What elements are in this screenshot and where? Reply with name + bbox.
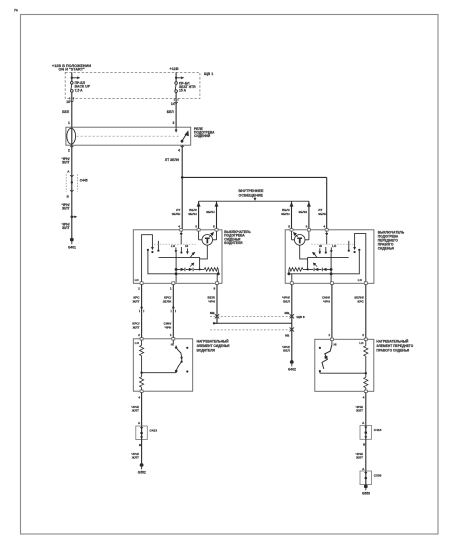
connector X mark right upper bbox=[290, 314, 294, 318]
pin A label connector C445 bbox=[67, 169, 70, 173]
connector C413 right label bbox=[374, 428, 382, 432]
wire riser bus to right switch pin3 bbox=[307, 201, 311, 230]
node power label +12V ON/START bbox=[52, 64, 91, 72]
svg-text:ВОДИТЕЛЯ: ВОДИТЕЛЯ bbox=[224, 241, 243, 245]
svg-text:БЕЛ: БЕЛ bbox=[62, 110, 70, 114]
inline connector mark pin2 wire bbox=[139, 305, 143, 312]
svg-text:ЖЛТ: ЖЛТ bbox=[355, 456, 363, 460]
connector squares top edge right element bbox=[330, 338, 367, 340]
driver seat heating element box bbox=[133, 339, 192, 391]
wire riser bus to left switch pin3 bbox=[197, 201, 201, 230]
interior light label bbox=[239, 189, 264, 197]
svg-text:C445: C445 bbox=[80, 178, 88, 182]
right switch lower feed wire bbox=[289, 251, 359, 274]
connector square bottom edge right element bbox=[364, 390, 367, 392]
indicator lamp driver switch bbox=[199, 231, 217, 245]
fuse F1 BACK UP 7.5A bbox=[71, 81, 74, 92]
wire fuse1 to relay pin1 bbox=[71, 92, 73, 127]
pin 4 label left switch bbox=[178, 225, 180, 229]
passenger seat heater switch box bbox=[285, 230, 374, 283]
wire relay pin4 down bbox=[181, 145, 183, 230]
diode D1 bbox=[181, 268, 185, 272]
svg-text:8: 8 bbox=[214, 287, 216, 291]
right switch contact c2 bbox=[348, 241, 350, 252]
pin MB label left bbox=[210, 311, 216, 315]
left switch pin4 internal arrow bbox=[180, 231, 183, 245]
wire fuse2 to relay pin3 bbox=[175, 92, 177, 127]
fuse box label bbox=[204, 72, 213, 76]
svg-text:НАГРЕВАТЕЛЬНЫЙ: НАГРЕВАТЕЛЬНЫЙ bbox=[197, 340, 230, 344]
wire color CHRN/ZHLT right bottom2 bbox=[355, 452, 363, 460]
pin 4 label relay bbox=[178, 149, 180, 153]
svg-text:ЭЛЕМЕНТ СИДЕНЬЯ: ЭЛЕМЕНТ СИДЕНЬЯ bbox=[197, 344, 231, 348]
svg-text:G401: G401 bbox=[68, 246, 76, 250]
wire right switch pin8 down to ground bbox=[291, 284, 293, 361]
svg-text:5: 5 bbox=[288, 225, 290, 229]
pin 3 label right switch bbox=[306, 225, 308, 229]
svg-text:4: 4 bbox=[138, 395, 140, 399]
svg-text:1: 1 bbox=[170, 287, 172, 291]
LO label right element bbox=[359, 341, 364, 345]
connector squares bottom edge left switch bbox=[140, 282, 218, 285]
fuse F2 SEAT HTR 15A bbox=[175, 82, 178, 93]
left switch lamp drop wire bbox=[200, 245, 208, 259]
diode D3 (LED) bbox=[313, 263, 318, 271]
svg-text:НВ: НВ bbox=[285, 334, 290, 338]
right switch lower blade bbox=[312, 252, 317, 258]
node diode row right bbox=[307, 268, 309, 270]
resistor left switch bbox=[204, 268, 218, 272]
heater resistor upper right element bbox=[364, 341, 368, 374]
passenger switch label bbox=[378, 231, 405, 251]
HI label left element bbox=[171, 342, 174, 346]
pin B label left C413 bbox=[139, 443, 142, 447]
LO corner label left switch bbox=[135, 278, 140, 282]
svg-text:КРС: КРС bbox=[358, 299, 365, 303]
svg-text:ЖЛТ: ЖЛТ bbox=[131, 456, 139, 460]
svg-text:4: 4 bbox=[323, 225, 325, 229]
svg-text:ЖЛТ: ЖЛТ bbox=[61, 161, 69, 165]
svg-text:74: 74 bbox=[14, 9, 18, 13]
connector mark at fuse box exit right bbox=[174, 98, 178, 103]
relay switch blade bbox=[181, 130, 189, 142]
svg-text:LO: LO bbox=[135, 341, 140, 345]
pin 4 label right switch bbox=[323, 225, 325, 229]
svg-text:ON И "START": ON И "START" bbox=[59, 68, 86, 72]
svg-text:БЕЛ: БЕЛ bbox=[283, 299, 290, 303]
wire color CHRN/ZHLT right bottom bbox=[355, 405, 363, 413]
pin 3 label relay bbox=[173, 121, 175, 125]
wire color SIN/CHRN right pin1 bbox=[322, 296, 330, 304]
diode D2 (LED) bbox=[189, 263, 194, 271]
fuse F1 value label bbox=[75, 81, 91, 92]
wire left element to C413 bbox=[141, 392, 143, 426]
connector boundary dashed lower bbox=[210, 329, 294, 331]
relay contact stub pin3 bbox=[175, 127, 178, 132]
pin 5 label right switch bbox=[288, 225, 290, 229]
pin 5 label left switch bbox=[213, 225, 215, 229]
wire resistor to pin8 right bbox=[288, 269, 292, 282]
wire color CHRN/ZHLT lower bbox=[61, 222, 69, 230]
svg-text:СИДЕНЬЯ: СИДЕНЬЯ bbox=[378, 247, 395, 251]
passenger element label bbox=[376, 339, 413, 352]
svg-text:LO: LO bbox=[359, 341, 364, 345]
svg-text:ПРАВОГО СИДЕНЬЯ: ПРАВОГО СИДЕНЬЯ bbox=[376, 348, 409, 352]
svg-text:5: 5 bbox=[213, 225, 215, 229]
wire color LT/ZELN right drop bbox=[318, 208, 327, 216]
svg-text:ЧРН: ЧРН bbox=[323, 299, 330, 303]
svg-text:1: 1 bbox=[170, 333, 172, 337]
pin 1 label right element bbox=[328, 333, 330, 337]
svg-text:ОСВЕЩЕНИЕ: ОСВЕЩЕНИЕ bbox=[239, 194, 264, 198]
pin A label left C413 bbox=[138, 421, 141, 425]
right switch pole wire L bbox=[355, 234, 366, 283]
svg-text:2: 2 bbox=[138, 333, 140, 337]
ground G552 bbox=[138, 463, 146, 475]
node power label +12V bbox=[170, 67, 179, 71]
right switch blade pivot bbox=[325, 247, 327, 254]
svg-text:НАГРЕВАТЕЛЬНЫЙ: НАГРЕВАТЕЛЬНЫЙ bbox=[376, 339, 409, 343]
node diode row left bbox=[199, 268, 201, 270]
pin A label right C336 bbox=[362, 467, 365, 471]
wire fuse2 feed bbox=[175, 72, 177, 81]
svg-text:C413: C413 bbox=[150, 428, 158, 432]
wire illumination bus bbox=[199, 200, 309, 202]
svg-text:ЩВ 1: ЩВ 1 bbox=[204, 72, 213, 76]
svg-text:LO: LO bbox=[135, 278, 140, 282]
pin 1 label relay bbox=[68, 121, 70, 125]
connector C445 (dashed sides) bbox=[66, 174, 77, 193]
svg-text:G552: G552 bbox=[138, 471, 146, 475]
wire color BEL/CHRN pin8 bbox=[207, 296, 215, 304]
connector squares bottom edge right switch bbox=[290, 282, 367, 285]
left switch contact c4 bbox=[186, 248, 189, 254]
right switch contact c5 dot bbox=[358, 249, 360, 251]
wire pin1 riser bbox=[175, 253, 177, 283]
pin 2 label relay bbox=[68, 149, 70, 153]
pin A label right C413 bbox=[362, 421, 365, 425]
wire color BEL (left feed) bbox=[62, 110, 70, 114]
svg-text:4: 4 bbox=[178, 149, 180, 153]
svg-text:МВ: МВ bbox=[210, 311, 216, 315]
svg-text:ЭЛЕМЕНТ ПЕРЕДНЕГО: ЭЛЕМЕНТ ПЕРЕДНЕГО bbox=[376, 344, 413, 348]
heater resistor upper left element bbox=[140, 340, 144, 373]
heater resistor lower left element bbox=[140, 373, 144, 392]
thermostat passenger element bbox=[319, 341, 332, 374]
pin 2 label left element bbox=[138, 333, 140, 337]
wire pin1 riser right bbox=[330, 253, 332, 283]
wire color ZELN left riser2 bbox=[206, 210, 215, 214]
wire color CHRN/ZHLT left bottom bbox=[131, 405, 139, 413]
pin 14 label bbox=[171, 102, 175, 106]
svg-text:HI: HI bbox=[185, 244, 188, 248]
driver seat heater switch box bbox=[133, 230, 222, 283]
svg-text:ВНУТРЕННЕЕ: ВНУТРЕННЕЕ bbox=[239, 189, 264, 193]
left switch lower feed wire bbox=[148, 251, 218, 274]
svg-text:ЧРН: ЧРН bbox=[165, 325, 172, 329]
HI label left switch bbox=[185, 244, 188, 248]
wire color KRS/ZELN pin1 bbox=[163, 296, 172, 304]
thermostat driver element bbox=[173, 340, 188, 373]
wire C445 to ground junction bbox=[71, 192, 73, 239]
svg-text:ЖЛТ: ЖЛТ bbox=[61, 207, 69, 211]
wire right switch pin1 down bbox=[331, 284, 333, 339]
svg-text:3: 3 bbox=[306, 225, 308, 229]
connector C413 left bbox=[136, 426, 148, 440]
pin 2 label right element bbox=[362, 333, 364, 337]
left switch lower blade bbox=[190, 252, 195, 258]
svg-text:МВ: МВ bbox=[285, 311, 291, 315]
connector C413 right bbox=[360, 426, 372, 440]
svg-text:3: 3 bbox=[195, 225, 197, 229]
node ground branch junction bbox=[71, 216, 78, 219]
HI label right element bbox=[334, 342, 337, 346]
indicator lamp passenger switch bbox=[292, 231, 309, 245]
fuse box No.1 (dashed) bbox=[65, 72, 200, 98]
mechanical link dashed right switch bbox=[311, 243, 353, 245]
connector squares top edge left switch bbox=[180, 229, 218, 231]
svg-text:LO: LO bbox=[171, 244, 176, 248]
wire left switch pin8 down bbox=[216, 284, 218, 323]
diode D4 bbox=[322, 268, 326, 272]
svg-text:C336: C336 bbox=[374, 473, 382, 477]
wire C413 to C336 right bbox=[365, 439, 367, 471]
connector mark at fuse box exit left bbox=[70, 97, 74, 102]
wire C413 to ground left bbox=[141, 440, 143, 464]
wire color BEЛ/ZELN right riser bbox=[281, 208, 290, 216]
pin 16 label bbox=[66, 100, 70, 104]
svg-text:ЧРН: ЧРН bbox=[208, 299, 215, 303]
wire left switch pin2 down bbox=[141, 284, 143, 338]
svg-text:ЖЛТ: ЖЛТ bbox=[131, 409, 139, 413]
right switch lamp drop wire bbox=[300, 245, 308, 259]
HI label right switch bbox=[319, 244, 322, 248]
svg-text:+12В: +12В bbox=[170, 67, 179, 71]
svg-text:ЖЛТ: ЖЛТ bbox=[132, 299, 140, 303]
node junction relay output split bbox=[181, 176, 184, 179]
svg-text:ЖЛТ: ЖЛТ bbox=[355, 409, 363, 413]
ground G401 bbox=[68, 238, 76, 250]
pin B label right C413 bbox=[363, 442, 366, 446]
relay box seat heater relay bbox=[66, 127, 191, 145]
heater resistor lower right element bbox=[364, 373, 368, 391]
pin 4 label left element bbox=[138, 395, 140, 399]
svg-text:ЖЛТ: ЖЛТ bbox=[61, 226, 69, 230]
pin B label connector C445 bbox=[67, 195, 70, 199]
interior light arrow bbox=[254, 197, 257, 201]
svg-text:ЗЕЛН: ЗЕЛН bbox=[318, 212, 327, 216]
inline connector mark pin1 wire bbox=[171, 305, 175, 312]
wire color LT ZELN below relay pin4 bbox=[165, 158, 180, 162]
svg-text:ЩВ 8: ЩВ 8 bbox=[297, 315, 305, 319]
svg-text:14: 14 bbox=[171, 102, 175, 106]
pin 1 label left element bbox=[170, 333, 172, 337]
left switch pole wire L bbox=[142, 235, 153, 283]
connector C445 label bbox=[80, 178, 88, 182]
left switch diode row wire bbox=[176, 268, 204, 270]
left switch contact c5 dot bbox=[147, 249, 149, 251]
svg-text:LO: LO bbox=[358, 278, 363, 282]
pin 3 label left switch bbox=[195, 225, 197, 229]
svg-text:ЖЛТ: ЖЛТ bbox=[132, 325, 140, 329]
ground G553 bbox=[362, 485, 370, 496]
svg-text:ЗЕЛН: ЗЕЛН bbox=[172, 212, 181, 216]
left switch contact c2 bbox=[157, 241, 159, 252]
pin 4 label right element bbox=[363, 395, 365, 399]
resistor right switch bbox=[289, 268, 303, 272]
wire top horizontal to right switch bbox=[182, 177, 327, 229]
svg-text:ЗЕЛН: ЗЕЛН bbox=[206, 210, 215, 214]
svg-text:2: 2 bbox=[138, 287, 140, 291]
pin 2 label left switch bottom bbox=[138, 287, 140, 291]
wire right switch pin2 down bbox=[365, 284, 367, 339]
driver element label bbox=[197, 340, 231, 353]
right switch pin4 internal arrow bbox=[325, 231, 328, 245]
wire color SIN/CHRN pin1 lower bbox=[164, 322, 172, 330]
connector C413 left label bbox=[150, 428, 158, 432]
svg-text:ВОДИТЕЛЯ: ВОДИТЕЛЯ bbox=[197, 349, 216, 353]
svg-text:HI: HI bbox=[319, 244, 322, 248]
relay coil bbox=[67, 127, 76, 145]
svg-text:LO: LO bbox=[332, 244, 337, 248]
wire color CHRN/ZHLT mid bbox=[61, 203, 69, 211]
mechanical link dashed left switch bbox=[154, 243, 196, 245]
connector C336 right label bbox=[374, 473, 382, 477]
svg-text:4: 4 bbox=[178, 225, 180, 229]
LO label right switch bbox=[332, 244, 337, 248]
svg-text:C413: C413 bbox=[374, 428, 382, 432]
left switch contact c3 bbox=[175, 247, 178, 253]
connector X mark right lower bbox=[290, 327, 294, 331]
wire color CHRN/ZHLT left bottom2 bbox=[131, 452, 139, 460]
wire color LT/ZELN left drop bbox=[172, 208, 181, 216]
node heater mid junction bbox=[140, 372, 176, 374]
svg-text:БЕЛ: БЕЛ bbox=[283, 349, 290, 353]
connector C boundary label bbox=[297, 315, 305, 319]
svg-text:1: 1 bbox=[68, 121, 70, 125]
LO label left element bbox=[135, 341, 140, 345]
connector square bottom edge left element bbox=[140, 390, 143, 392]
connector C336 right bbox=[360, 471, 372, 485]
ground G402 bbox=[288, 360, 296, 372]
wire left switch pin1 down bbox=[172, 284, 174, 338]
svg-text:15 A: 15 A bbox=[179, 89, 187, 93]
right switch contact c4 bbox=[318, 248, 321, 254]
wire fuse1 feed bbox=[71, 72, 73, 81]
svg-text:G553: G553 bbox=[362, 492, 370, 496]
left switch contact c1 bbox=[151, 241, 154, 253]
connector bracket below relay pin4 bbox=[180, 146, 184, 148]
wire resistor to pin8 bbox=[217, 269, 219, 282]
left switch blade pivot bbox=[180, 247, 182, 254]
right switch diode row wire bbox=[303, 268, 331, 270]
svg-text:ЗЕЛН: ЗЕЛН bbox=[163, 299, 172, 303]
wire color BEL (right feed) bbox=[167, 110, 175, 114]
wire riser bus to right switch pin5 bbox=[290, 201, 294, 230]
svg-text:7,5 A: 7,5 A bbox=[75, 88, 84, 92]
svg-text:ЗЕЛН: ЗЕЛН bbox=[281, 212, 290, 216]
wire relay pin2 down bbox=[71, 145, 73, 173]
wire color CHRN/BEL right pin8 bbox=[282, 296, 290, 304]
connector squares top edge left element bbox=[140, 338, 175, 340]
node heater mid junction right bbox=[320, 372, 367, 374]
connector squares top edge right switch bbox=[290, 229, 328, 231]
svg-text:3: 3 bbox=[173, 121, 175, 125]
svg-text:16: 16 bbox=[66, 100, 70, 104]
connector bracket below relay pin2 bbox=[70, 146, 74, 148]
wire color CHRN/ZHLT below relay pin2 bbox=[61, 157, 69, 165]
pin HB label bbox=[285, 334, 290, 338]
wire right element to C413 bbox=[365, 393, 367, 426]
svg-text:ЗЕЛН: ЗЕЛН bbox=[188, 212, 197, 216]
right switch selector link wire bbox=[308, 257, 349, 269]
svg-text:СИДЕНИЙ: СИДЕНИЙ bbox=[194, 134, 211, 138]
connector X mark pin8 bbox=[215, 314, 219, 318]
wire riser bus to left switch pin5 bbox=[215, 201, 219, 230]
node tap junction fuse1 bbox=[71, 76, 81, 79]
svg-text:2: 2 bbox=[362, 333, 364, 337]
LO label left switch bbox=[171, 244, 176, 248]
relay label bbox=[194, 127, 215, 138]
driver switch label bbox=[224, 230, 251, 245]
wire ground link horizontal bbox=[213, 322, 292, 325]
wire color BEL/ZELN left riser bbox=[188, 208, 197, 216]
svg-text:ЗЕЛН: ЗЕЛН bbox=[298, 210, 307, 214]
wire color KRS pin2 bbox=[132, 296, 141, 304]
right switch contact c1 bbox=[353, 241, 356, 253]
svg-text:2: 2 bbox=[68, 149, 70, 153]
svg-text:БЕЛ: БЕЛ bbox=[167, 110, 175, 114]
passenger seat heating element box bbox=[315, 339, 374, 391]
svg-text:4: 4 bbox=[363, 395, 365, 399]
LO corner label right switch bbox=[358, 278, 363, 282]
svg-text:1: 1 bbox=[328, 333, 330, 337]
pin 1 label left switch bottom bbox=[170, 287, 172, 291]
pin 8 label left switch bottom bbox=[214, 287, 216, 291]
node tap junction fuse2 bbox=[175, 76, 184, 79]
pin MB label right bbox=[285, 311, 291, 315]
svg-text:ЛТ ЗЕЛН: ЛТ ЗЕЛН bbox=[165, 158, 180, 162]
fuse F2 value label bbox=[179, 81, 196, 92]
right switch contact c3 bbox=[330, 247, 333, 253]
svg-text:HI: HI bbox=[334, 342, 337, 346]
wire color ZELN right riser2 bbox=[298, 210, 307, 214]
wire color KRS/ZHLT pin2 lower bbox=[132, 322, 140, 330]
left switch selector link wire bbox=[159, 257, 200, 269]
wire color CHRN/BEL lower right pin8 bbox=[282, 345, 290, 353]
wire color ZELN/KRS right pin2 bbox=[354, 296, 364, 304]
connector boundary dashed upper bbox=[210, 316, 294, 318]
relay internal dashed link bbox=[77, 135, 180, 137]
svg-text:G402: G402 bbox=[288, 368, 296, 372]
